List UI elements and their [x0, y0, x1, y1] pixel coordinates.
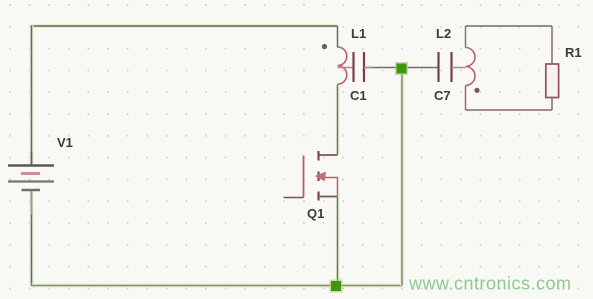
- gate lead: [284, 197, 304, 199]
- resistor R1: [546, 64, 559, 98]
- gate bar: [303, 156, 305, 198]
- drain lead: [319, 154, 338, 156]
- wire Q1 source to bottom rail: [336, 197, 340, 286]
- channel bar middle: [317, 172, 319, 182]
- svg-text:C1: C1: [350, 88, 367, 103]
- svg-text:V1: V1: [57, 135, 73, 150]
- svg-text:C7: C7: [434, 88, 451, 103]
- wire R1 top lead: [551, 26, 553, 64]
- svg-text:L1: L1: [351, 26, 366, 41]
- battery V1: [8, 152, 54, 215]
- node output junction square: [395, 62, 408, 75]
- wire left rail lower: [30, 191, 34, 286]
- wire left rail upper: [30, 25, 34, 164]
- wire top rail: [32, 24, 338, 28]
- phase dot L1: [322, 44, 327, 49]
- node ground junction square: [330, 280, 343, 293]
- wire L1 top lead: [337, 26, 339, 48]
- inductor L2: [466, 48, 476, 86]
- wire R1 loop bottom: [466, 109, 553, 111]
- channel bar top: [317, 151, 319, 161]
- wire R1 loop left upper: [465, 26, 467, 48]
- transistor Q1: [284, 151, 338, 201]
- body lead with arrow: [323, 178, 338, 197]
- wire C1 to node to C7: [364, 67, 439, 69]
- svg-text:www.cntronics.com: www.cntronics.com: [408, 274, 572, 294]
- wire bottom rail: [32, 284, 403, 288]
- wire R1 bottom lead: [551, 98, 553, 111]
- capacitor C7: [439, 52, 466, 82]
- svg-text:Q1: Q1: [307, 206, 324, 221]
- phase dot L2: [474, 88, 479, 93]
- svg-text:L2: L2: [436, 26, 451, 41]
- inductor L1: [338, 47, 347, 84]
- source lead: [319, 196, 338, 198]
- wire R1 loop top: [466, 25, 553, 27]
- capacitor C1: [338, 52, 374, 82]
- wire L1 bottom to Q1 drain: [336, 85, 340, 155]
- wire output net vertical: [400, 68, 404, 286]
- channel bar bottom: [317, 192, 319, 201]
- wire R1 loop left lower: [465, 86, 467, 111]
- svg-text:R1: R1: [565, 45, 582, 60]
